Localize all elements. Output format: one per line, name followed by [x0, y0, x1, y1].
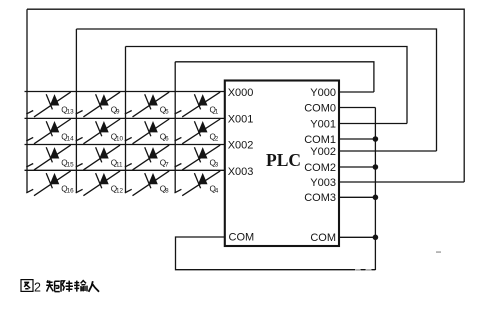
wire bridge Y003 top: [27, 9, 464, 182]
svg-text:5: 5: [165, 109, 169, 116]
thyristor Q10: [76, 119, 124, 144]
wire COM3 pin: [339, 196, 375, 198]
wire COM1 pin: [339, 138, 375, 140]
wire Y003 pin: [339, 181, 464, 183]
svg-text:6: 6: [165, 135, 169, 142]
wire column 2: [75, 29, 77, 192]
svg-text:2: 2: [215, 135, 219, 142]
svg-text:Y001: Y001: [310, 118, 336, 130]
svg-text:COM0: COM0: [304, 102, 336, 114]
svg-text:COM1: COM1: [304, 134, 336, 146]
svg-text:X000: X000: [228, 87, 254, 99]
svg-text:4: 4: [215, 187, 219, 194]
svg-text:X003: X003: [228, 166, 254, 178]
wire row X001: [25, 117, 225, 119]
svg-text:COM2: COM2: [304, 162, 336, 174]
thyristor Q1: [175, 92, 221, 117]
wire row X000: [25, 91, 225, 93]
junction dot COM: [373, 235, 379, 241]
svg-text:15: 15: [67, 162, 75, 169]
caption char shu (input): [74, 281, 87, 292]
wire COM0 pin: [339, 107, 375, 109]
caption char ju (matrix): [46, 280, 60, 291]
thyristor Q3: [175, 145, 221, 170]
thyristor Q14: [26, 119, 74, 144]
PLC U1 body: [225, 81, 339, 247]
faded artifact on bottom wire: [355, 269, 371, 271]
thyristor Q4: [175, 171, 221, 196]
svg-text:Y000: Y000: [310, 87, 336, 99]
junction dot COM3: [373, 195, 379, 201]
svg-text:16: 16: [67, 187, 75, 194]
svg-text:13: 13: [67, 109, 75, 116]
svg-text:COM: COM: [310, 232, 336, 244]
junction dot COM1: [373, 136, 379, 142]
svg-text:COM: COM: [229, 232, 255, 244]
junction dot COM2: [373, 164, 379, 170]
svg-text:2: 2: [34, 280, 41, 294]
svg-text:3: 3: [215, 162, 219, 169]
wire bridge Y002: [76, 29, 436, 151]
caption figure 2 text: [21, 280, 99, 292]
thyristor Q11: [76, 145, 123, 170]
svg-text:10: 10: [116, 135, 124, 142]
svg-text:11: 11: [116, 162, 123, 169]
svg-text:7: 7: [165, 162, 169, 169]
svg-text:9: 9: [116, 109, 120, 116]
thyristor Q15: [26, 145, 74, 170]
stray artifact mark: [436, 251, 441, 253]
wire bridge Y001: [126, 47, 408, 124]
wire Y002 pin: [339, 150, 437, 152]
wire column 1: [26, 9, 28, 192]
wire Y000 pin: [339, 91, 374, 93]
wire column 4: [174, 62, 176, 193]
thyristor Q5: [125, 92, 169, 117]
wire column 3: [125, 47, 127, 193]
thyristor Q9: [76, 92, 120, 117]
wire COM bottom return: [176, 237, 376, 270]
svg-text:X002: X002: [228, 140, 254, 152]
caption char ru (enter): [89, 281, 99, 292]
wire row X003: [25, 169, 225, 171]
wire COM2 pin: [339, 166, 375, 168]
thyristor Q8: [125, 171, 169, 196]
thyristor Q6: [125, 119, 169, 144]
svg-text:X001: X001: [228, 113, 254, 125]
thyristor Q16: [26, 171, 74, 196]
thyristor Q7: [125, 145, 169, 170]
svg-text:14: 14: [67, 135, 75, 142]
wire Y001 pin: [339, 123, 407, 125]
caption char zhen (array): [61, 280, 73, 291]
thyristor Q13: [26, 92, 74, 117]
thyristor Q2: [175, 119, 221, 144]
thyristor Q12: [76, 171, 124, 196]
svg-text:Y003: Y003: [310, 177, 336, 189]
wire row X002: [25, 144, 225, 146]
svg-text:COM3: COM3: [304, 192, 336, 204]
wire bridge Y000: [175, 62, 374, 92]
svg-text:8: 8: [165, 187, 169, 194]
wire COM right pin: [339, 236, 375, 238]
caption char tu (picture): [21, 280, 33, 292]
svg-text:1: 1: [215, 109, 219, 116]
svg-text:Y002: Y002: [310, 146, 336, 158]
svg-text:PLC: PLC: [266, 150, 301, 170]
wire COM bus vertical: [374, 108, 376, 271]
svg-text:12: 12: [116, 187, 124, 194]
